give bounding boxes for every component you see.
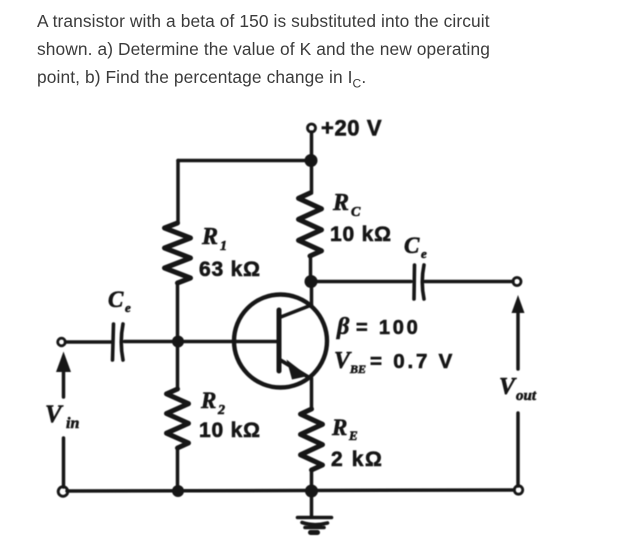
svg-text:V: V xyxy=(499,374,517,400)
svg-text:= 100: = 100 xyxy=(356,317,421,339)
svg-text:β: β xyxy=(336,314,350,340)
svg-text:10 kΩ: 10 kΩ xyxy=(330,223,392,246)
svg-text:V: V xyxy=(45,401,64,428)
svg-text:BE: BE xyxy=(349,362,366,376)
svg-text:out: out xyxy=(516,388,537,404)
svg-text:R: R xyxy=(332,190,349,216)
svg-text:e: e xyxy=(421,246,427,261)
svg-text:R: R xyxy=(201,224,218,250)
svg-text:in: in xyxy=(66,415,79,432)
svg-text:C: C xyxy=(351,205,361,220)
svg-text:R: R xyxy=(200,388,216,413)
svg-text:C: C xyxy=(108,287,124,312)
svg-text:+20 V: +20 V xyxy=(321,116,382,141)
svg-text:10 kΩ: 10 kΩ xyxy=(199,419,261,442)
svg-text:1: 1 xyxy=(220,239,227,254)
svg-text:= 0.7 V: = 0.7 V xyxy=(370,350,455,373)
svg-text:R: R xyxy=(331,415,347,440)
svg-text:2: 2 xyxy=(217,403,225,418)
svg-text:E: E xyxy=(348,428,358,443)
svg-text:C: C xyxy=(404,233,420,258)
svg-text:e: e xyxy=(125,300,131,315)
svg-text:63 kΩ: 63 kΩ xyxy=(199,258,261,281)
svg-text:2 kΩ: 2 kΩ xyxy=(331,448,383,471)
